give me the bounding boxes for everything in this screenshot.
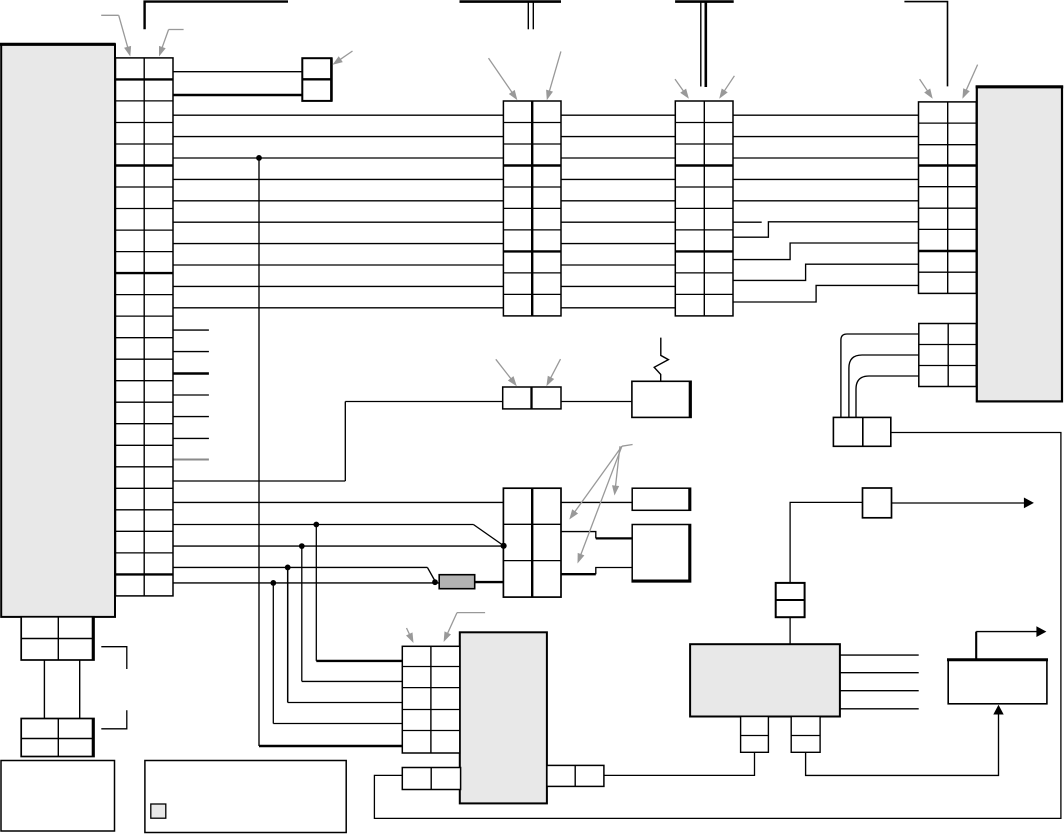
wire J5 row3 bold segment — [561, 573, 596, 575]
wire row23 — [173, 545, 503, 547]
junction box B1 (2 cells) — [302, 58, 331, 101]
module E box — [1, 761, 115, 832]
wire harness row9 — [173, 243, 675, 245]
wire row22 — [173, 524, 473, 526]
wire drop row25 (pin4) — [272, 583, 274, 724]
leader arrow to J4 col1 — [675, 79, 686, 94]
module B (right, gray) — [977, 87, 1062, 402]
wire B lower pin1 — [841, 334, 919, 417]
wire harness row10 — [173, 264, 675, 266]
leader arrow to junction box B1 — [337, 51, 353, 62]
CD changer right connector (2 cells) — [547, 765, 604, 786]
module B top edge — [976, 85, 1064, 88]
speaker box (bottom right) — [948, 660, 1047, 704]
leader arrow to CD connector col2 — [457, 612, 485, 614]
amplifier output wire 2 — [840, 672, 919, 674]
noise filter box — [632, 381, 691, 417]
shield stem T1 right — [532, 2, 534, 30]
label bracket over left connector — [145, 2, 288, 30]
cable E wire right — [79, 660, 81, 719]
junction dot row22 — [313, 522, 319, 528]
wire stub J4 row6 — [733, 221, 762, 223]
wire J4 row8 jog — [733, 243, 919, 260]
wire pin4 horizontal — [273, 723, 402, 725]
wire row1 to junction box B1 — [173, 71, 302, 73]
wire harness row11 — [173, 285, 675, 287]
wire row22 diagonal — [473, 525, 503, 546]
wire stub row19 (gray) — [173, 459, 209, 461]
CD changer lower connector (2 cells) — [402, 768, 460, 790]
wire pin2 horizontal — [302, 680, 403, 682]
wire drop from row5 junction — [258, 158, 260, 746]
shield stem T1 left — [527, 2, 529, 30]
junction dot on wire row5 — [256, 155, 262, 161]
wire row21 to connector J5 pin1 — [173, 501, 632, 503]
leader fan tail — [622, 445, 633, 447]
wire S1 to connector C2 — [604, 752, 755, 775]
wire stub row14 — [173, 351, 209, 353]
wire drop row23 (pin2) — [301, 546, 303, 681]
ECU module A top edge — [0, 43, 116, 46]
amplifier output wire 4 — [840, 708, 919, 710]
junction box B1 right edge — [330, 58, 333, 101]
ECU connector A (2x25 grid) — [116, 58, 174, 596]
wire row20 to antenna feed — [173, 480, 345, 482]
junction box B2 (2 cells) — [833, 417, 890, 446]
resistor R1 — [439, 575, 475, 589]
leader arrow to connector A col2 — [169, 29, 184, 31]
wire S2 to speaker box (arrow up) — [806, 712, 999, 775]
wire row24 — [173, 566, 427, 568]
leader arrow to CD connector col1 — [407, 628, 412, 638]
junction dot row23 — [299, 543, 305, 549]
wire harness row12 — [173, 307, 675, 309]
wire harness row5 — [173, 157, 675, 159]
wire B lower pin3 — [856, 376, 919, 417]
wire row2 to junction box B1 (bold) — [173, 94, 302, 97]
wire J4 row9 jog — [733, 264, 919, 280]
leader arrow to connector A col1 — [101, 14, 119, 16]
wire J5 row3 jog — [596, 568, 632, 575]
junction block E1 (2x2) — [21, 617, 94, 660]
shield bar T1 over junction connector J3 — [460, 0, 562, 3]
junction dot row24 — [285, 565, 291, 571]
wire from inline connector to relay box B3 — [790, 502, 862, 583]
tuner module indicator square — [151, 804, 166, 818]
wire B lower pin2 — [849, 355, 919, 417]
wire harness row7 — [173, 200, 675, 202]
junction dot at J5 pin2 — [501, 543, 507, 549]
junction dot row25 — [270, 580, 276, 586]
CD changer module (gray) — [460, 632, 547, 803]
wire row20 riser — [344, 402, 346, 482]
speaker box top edge — [947, 658, 1048, 661]
leader arrow to J6 col2 — [549, 359, 561, 381]
junction connector J4 (2x10 grid) — [675, 101, 733, 316]
wire stub row15 (bold) — [173, 372, 209, 375]
wire row20 horizontal to noise filter — [345, 401, 632, 403]
shield stem T2 right — [704, 2, 707, 87]
inline connector C1 (2 cells) — [776, 583, 805, 617]
leader arrow to J6 col1 — [496, 359, 514, 382]
signal arrow from B3 — [892, 502, 1027, 504]
inline connector C1 divider — [776, 599, 805, 601]
wire resistor R1 output (bold) — [475, 581, 504, 583]
wire J4 row3 to right connector — [733, 157, 919, 159]
wire stub row17 — [173, 416, 209, 418]
wire stub row18 — [173, 437, 209, 439]
antenna squiggle — [654, 338, 668, 382]
leader fan arrow 2 — [579, 446, 622, 558]
leader fan arrow 1 — [573, 446, 622, 515]
wire J5 row2 jog bold segment — [596, 537, 632, 539]
wire pin3 horizontal — [288, 702, 403, 704]
wire pin1 horizontal (bold) — [316, 660, 402, 662]
wire drop row22 to amplifier connector (pin1) — [315, 525, 317, 661]
amplifier output wire 3 — [840, 690, 919, 692]
single row connector J6 — [503, 387, 561, 409]
wire row25 — [173, 582, 439, 584]
cable E wire left — [43, 660, 45, 719]
cable grouping bracket bottom — [101, 710, 127, 729]
wire row24 diagonal — [427, 567, 435, 581]
leader arrow to J3 col1 — [489, 58, 515, 96]
wire J4 row2 to right connector — [733, 136, 919, 138]
wire harness row6 — [173, 178, 675, 180]
relay box B3 — [863, 488, 892, 518]
CD changer connector (2x5 grid) — [402, 646, 460, 753]
shield bar T2 over junction connector J4 — [675, 0, 734, 3]
wire J4 row5 to right connector — [733, 200, 919, 202]
junction box B1 divider — [302, 78, 331, 80]
amplifier module (gray) — [690, 644, 840, 716]
wire J4 row1 to right connector — [733, 114, 919, 116]
wire drop row24 (pin3) — [287, 567, 289, 702]
ground loop wire from B2 — [374, 433, 1061, 819]
cable grouping bracket top — [101, 647, 127, 669]
noise filter right edge — [689, 381, 692, 417]
wire J5 row2 jog to control box — [561, 532, 596, 539]
ECU module A (left, gray) — [1, 44, 115, 617]
wire harness row4 — [173, 136, 675, 138]
speaker box output arrow — [975, 632, 977, 660]
leader arrow to J3 col2 — [548, 51, 561, 95]
module B lower connector (2x3 grid) — [919, 324, 977, 387]
wire stub row13 — [173, 329, 209, 331]
shield stem T2 left — [700, 2, 702, 87]
wire stub row16 — [173, 394, 209, 396]
module B connector (2x9 grid) — [919, 102, 977, 294]
wire J4 row10 jog — [733, 285, 919, 302]
wire harness row8 — [173, 221, 675, 223]
wire C1 to amplifier — [789, 617, 791, 644]
wire J4 row4 to right connector — [733, 178, 919, 180]
junction block E2 (2x2) — [21, 719, 94, 757]
leader arrow to J4 col2 — [722, 76, 734, 94]
control box D2 — [632, 525, 690, 582]
junction box B2 divider — [862, 417, 864, 446]
junction dot at resistor R1 input — [432, 579, 438, 585]
wire J4 row7 jog — [733, 222, 919, 237]
junction connector J3 (2x10 grid) — [503, 101, 561, 316]
tuner module box — [145, 761, 346, 833]
leader arrow to module B connector col2 — [965, 65, 978, 94]
connector J5 (2x3 grid) — [503, 488, 561, 597]
label bracket over right connector — [904, 2, 947, 87]
amplifier output wire 1 — [840, 654, 919, 656]
wire harness row3 — [173, 114, 675, 116]
amplifier connector stack S1 — [741, 717, 769, 753]
connector J6 divider — [530, 387, 532, 409]
wire pin5 horizontal (bold) — [259, 745, 402, 747]
leader arrow to module B connector col1 — [920, 79, 930, 94]
amplifier connector stack S2 — [791, 717, 820, 753]
control box D1 — [632, 488, 690, 510]
leader fan arrow 3 — [615, 446, 620, 490]
